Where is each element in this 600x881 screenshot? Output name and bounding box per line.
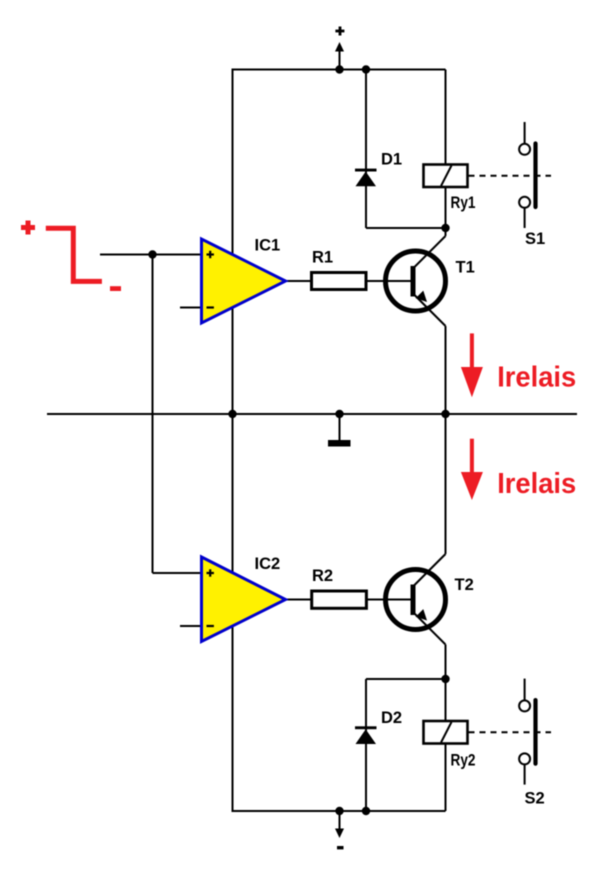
svg-text:Ry1: Ry1 <box>451 194 476 212</box>
svg-text:T1: T1 <box>456 259 475 277</box>
svg-text:D1: D1 <box>381 151 402 169</box>
svg-text:Irelais: Irelais <box>497 468 576 500</box>
svg-text:R1: R1 <box>312 249 333 267</box>
svg-text:T2: T2 <box>455 576 474 594</box>
svg-text:Ry2: Ry2 <box>451 752 476 770</box>
svg-text:IC1: IC1 <box>255 237 281 255</box>
svg-text:S1: S1 <box>525 230 545 248</box>
svg-text:Irelais: Irelais <box>497 362 576 394</box>
svg-text:S2: S2 <box>525 790 545 808</box>
svg-text:R2: R2 <box>312 567 333 585</box>
svg-text:D2: D2 <box>381 709 402 727</box>
svg-text:IC2: IC2 <box>255 555 281 573</box>
